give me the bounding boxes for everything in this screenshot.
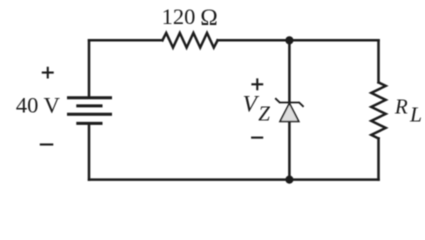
svg-text:R: R (394, 95, 408, 119)
svg-text:120: 120 (162, 4, 196, 29)
svg-text:Z: Z (258, 102, 270, 126)
svg-text:40 V: 40 V (16, 93, 60, 118)
svg-text:L: L (409, 103, 422, 127)
svg-text:Ω: Ω (200, 5, 218, 31)
